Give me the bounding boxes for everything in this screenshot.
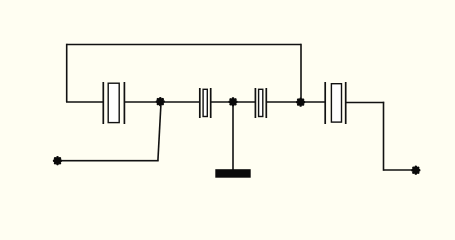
input terminal	[53, 156, 62, 165]
wire ground vertical	[232, 102, 234, 170]
wire Y2 to Y3 segment	[211, 101, 256, 103]
ground	[215, 169, 250, 178]
wire Y4 right segment	[346, 102, 385, 104]
wire top feedback right vertical	[300, 44, 302, 102]
wire Y3 to Y4 segment	[266, 101, 325, 103]
wire output vertical	[383, 102, 385, 171]
wire top feedback horizontal	[67, 44, 301, 46]
crystal Y2	[200, 88, 211, 118]
output terminal	[411, 166, 420, 175]
wire input bottom horizontal	[58, 160, 159, 162]
wire top feedback left vertical	[66, 44, 68, 102]
node A junction	[156, 97, 165, 106]
wire main left segment	[66, 101, 104, 103]
crystal Y3	[255, 88, 266, 118]
wire input vertical	[158, 103, 161, 161]
wire output bottom horizontal	[384, 169, 416, 171]
crystal Y4	[325, 82, 346, 124]
wire Y1 to Y2 segment	[124, 101, 199, 103]
node B junction	[228, 97, 237, 106]
node C junction	[296, 97, 305, 106]
crystal Y1	[103, 82, 124, 124]
